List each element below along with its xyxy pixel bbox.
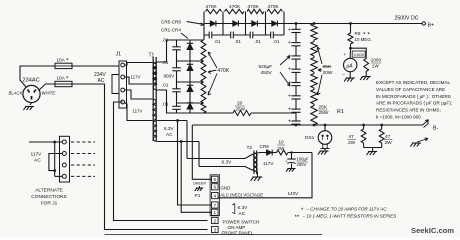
svg-text:GREEN: GREEN xyxy=(193,182,206,186)
resistor 10/2W xyxy=(272,152,276,154)
ground (100uF) xyxy=(287,168,295,170)
svg-text:ARE IN PICOFARADS ( pF OR µµF): ARE IN PICOFARADS ( pF OR µµF); xyxy=(376,101,452,106)
wire T2 primary bottom xyxy=(199,167,253,171)
capacitors .01 column xyxy=(176,40,178,47)
svg-text:+: + xyxy=(288,67,291,73)
svg-text:P1: P1 xyxy=(195,193,201,199)
svg-text:FOR J1: FOR J1 xyxy=(41,201,58,207)
ground (T2) xyxy=(256,172,258,177)
svg-text:250V: 250V xyxy=(297,162,307,167)
svg-text:CR1-CR4: CR1-CR4 xyxy=(161,28,181,33)
AC plug 234AC xyxy=(23,85,40,102)
resistor chain 470K (4x) xyxy=(201,40,206,61)
wire J1 pin4 down to P1 pin2 xyxy=(114,102,208,221)
svg-text:+: + xyxy=(288,27,291,33)
svg-text:470K: 470K xyxy=(218,68,230,74)
wire to 1000 ohm xyxy=(351,48,367,58)
svg-text:.01: .01 xyxy=(162,83,169,88)
resistor 47/2W (right) xyxy=(381,125,383,129)
diodes CR1-CR4 xyxy=(189,40,191,43)
multiplier rungs xyxy=(177,39,204,41)
fuse F2 xyxy=(55,81,72,86)
resistor 20/25W xyxy=(233,110,251,115)
svg-text:µA: µA xyxy=(346,63,353,69)
ladder capacitor row .01 x4 xyxy=(204,34,284,36)
svg-text:+: + xyxy=(288,93,291,99)
svg-text:117V: 117V xyxy=(31,152,43,158)
T1 primary winding 1 (117V) xyxy=(152,63,156,85)
svg-text:7: 7 xyxy=(214,203,217,208)
ladder resistors 470K x4 (top row) xyxy=(206,9,222,13)
ladder diode row CR5-CR8 xyxy=(204,23,287,25)
resistor 1000/1W xyxy=(364,58,369,71)
svg-text:ALTERNATE: ALTERNATE xyxy=(35,188,63,194)
svg-text:J1: J1 xyxy=(116,52,122,58)
svg-text:.01: .01 xyxy=(162,102,169,107)
svg-text:117V: 117V xyxy=(133,109,143,114)
svg-text:5: 5 xyxy=(214,177,217,182)
wire F2 to power switch (P1 pin3) xyxy=(72,84,208,230)
T1 primary winding 2 (117V) xyxy=(152,99,156,121)
label 0-500 xyxy=(352,51,365,57)
svg-text:470K: 470K xyxy=(248,4,260,10)
svg-text:117V: 117V xyxy=(131,75,141,80)
dashed leads (alternate J1) xyxy=(71,141,95,143)
connector J1 xyxy=(119,61,127,108)
svg-text:.01: .01 xyxy=(162,60,169,65)
T1 6.3V winding xyxy=(153,121,157,142)
svg-text:2W: 2W xyxy=(385,140,393,146)
svg-text:6.3V: 6.3V xyxy=(222,160,233,166)
svg-text:IN MICROFARADS ( µF ) ; OTHERS: IN MICROFARADS ( µF ) ; OTHERS xyxy=(376,94,451,99)
ground with arrow (B-) xyxy=(417,138,428,142)
wire plug to fuse F1 xyxy=(20,66,55,88)
wire 6.3V bottom to P1 pin1 xyxy=(157,141,199,143)
svg-text:10A: 10A xyxy=(57,76,66,81)
svg-text:10: 10 xyxy=(279,140,285,145)
svg-text:.01: .01 xyxy=(214,39,221,44)
ground (1000 ohm) xyxy=(365,72,367,77)
connector P1 pins xyxy=(212,176,219,182)
svg-text:.01: .01 xyxy=(273,39,280,44)
svg-text:25W: 25W xyxy=(319,110,329,116)
svg-text:900V: 900V xyxy=(164,74,176,79)
svg-text:470K: 470K xyxy=(229,4,241,10)
svg-text:6.3V: 6.3V xyxy=(164,126,174,131)
svg-text:470K: 470K xyxy=(268,4,280,10)
resistor bank 25K/20W xyxy=(313,23,315,25)
wire stack bottom xyxy=(167,112,234,114)
svg-text:ON AMP: ON AMP xyxy=(228,225,246,230)
svg-text:WHITE: WHITE xyxy=(42,91,56,96)
svg-text:470K: 470K xyxy=(206,4,218,10)
svg-text:T2: T2 xyxy=(247,145,253,151)
resistor 47/2W (left) xyxy=(363,125,365,129)
svg-text:20W: 20W xyxy=(323,70,333,76)
P1 outline xyxy=(210,175,219,216)
wire plug to fuse F2 xyxy=(39,84,56,91)
ladder cap risers xyxy=(203,24,205,41)
wire 47 ohm bottoms xyxy=(364,147,382,149)
svg-text:AC: AC xyxy=(98,78,105,84)
connector (alternate J1) xyxy=(60,136,70,182)
svg-text:25W: 25W xyxy=(236,107,246,112)
wire B- bus to P1 pin5 xyxy=(192,125,211,179)
svg-text:k =1000, M=1000 000: k =1000, M=1000 000 xyxy=(376,115,421,120)
svg-text:1W: 1W xyxy=(372,63,380,68)
svg-text:SeekIC.com: SeekIC.com xyxy=(411,226,454,235)
wire F1 to J1 pin1 xyxy=(72,65,119,67)
svg-text:R1: R1 xyxy=(337,109,344,115)
wire (bottom frame) xyxy=(105,234,323,236)
ground (plug) xyxy=(30,103,32,105)
svg-text:AC: AC xyxy=(34,158,41,164)
T1 secondary 900V winding xyxy=(153,62,157,90)
svg-text:+: + xyxy=(288,119,291,125)
wire B+ 2500V line xyxy=(287,23,423,25)
svg-text:POWER SWITCH: POWER SWITCH xyxy=(223,220,260,225)
label 6.3V AC (P1) xyxy=(232,204,235,214)
svg-text:4: 4 xyxy=(214,194,217,199)
svg-text:+: + xyxy=(288,40,291,46)
svg-text:.01: .01 xyxy=(235,39,242,44)
ground (DS1) xyxy=(324,149,326,151)
svg-text:.01: .01 xyxy=(255,39,262,44)
svg-text:234AC: 234AC xyxy=(23,78,40,84)
svg-text:AC: AC xyxy=(239,211,246,217)
svg-text:R9: R9 xyxy=(355,31,361,36)
svg-text:1000: 1000 xyxy=(371,58,382,63)
svg-text:−: − xyxy=(342,73,345,78)
svg-text:3: 3 xyxy=(214,227,217,232)
svg-text:0-500: 0-500 xyxy=(354,52,365,57)
terminal B- break xyxy=(423,120,429,125)
wire T2 secondary to CR9 xyxy=(257,152,266,155)
jumper wire pins 1-4 (alternate) xyxy=(54,142,56,176)
svg-text:47: 47 xyxy=(349,134,355,140)
svg-text:+: + xyxy=(288,107,291,113)
svg-text:B+: B+ xyxy=(428,23,435,29)
wire ALC from P1 pin4 xyxy=(218,153,312,198)
svg-text:10A: 10A xyxy=(57,58,66,63)
svg-text:25K: 25K xyxy=(319,105,328,111)
wire alternate pin1 xyxy=(29,141,62,143)
wire 900V top to rectifier xyxy=(157,40,176,62)
wire 6.3V bottom branch to T2 xyxy=(198,142,200,167)
svg-text:CR9: CR9 xyxy=(260,144,270,149)
ground (meter) xyxy=(349,72,351,78)
svg-text:DS1: DS1 xyxy=(305,135,315,141)
wire 6.3V top to P1 pin7 xyxy=(157,120,187,122)
svg-text:**: ** xyxy=(295,215,300,221)
resistor R9 10MEG xyxy=(350,24,352,34)
svg-text:1: 1 xyxy=(214,210,217,215)
svg-text:10 MEG.: 10 MEG. xyxy=(355,37,372,42)
svg-text:CONNECTIONS: CONNECTIONS xyxy=(31,194,66,200)
svg-text:2500V DC: 2500V DC xyxy=(395,16,419,22)
svg-text:EXCEPT AS INDICATED, DECIMAL: EXCEPT AS INDICATED, DECIMAL xyxy=(376,80,451,85)
svg-text:25K: 25K xyxy=(323,64,332,70)
svg-text:140V: 140V xyxy=(288,191,300,196)
capacitor 100uF/250V xyxy=(290,151,292,153)
svg-text:AC: AC xyxy=(166,132,173,137)
svg-text:CR5-CR8: CR5-CR8 xyxy=(161,20,181,25)
wire B- bus xyxy=(192,124,422,126)
svg-text:450V: 450V xyxy=(261,70,273,76)
svg-text:– 10 1-MEG. 1-WATT RESISTORS: – 10 1-MEG. 1-WATT RESISTORS IN SERIES xyxy=(302,214,397,219)
fuse F1 xyxy=(55,63,72,68)
capacitor bank 525uF/450V (8x) xyxy=(295,24,297,30)
svg-text:+: + xyxy=(343,53,346,58)
svg-text:VALUES OF CAPACITANCE ARE: VALUES OF CAPACITANCE ARE xyxy=(376,87,445,92)
svg-text:6: 6 xyxy=(214,185,217,190)
svg-text:B-: B- xyxy=(433,126,438,132)
svg-text:BLACK: BLACK xyxy=(9,91,23,96)
svg-text:ALC (NEG) VOLTAGE: ALC (NEG) VOLTAGE xyxy=(221,192,264,197)
svg-text:RESISTANCES ARE IN OHMS;: RESISTANCES ARE IN OHMS; xyxy=(376,108,441,113)
svg-text:47: 47 xyxy=(385,134,391,140)
jumper bracket J1 pins 2-3 xyxy=(112,75,119,94)
svg-text:2: 2 xyxy=(214,218,217,223)
terminal B+ xyxy=(422,22,425,25)
meter M1 uA xyxy=(349,47,352,50)
svg-text:– CHANGE TO 20 AMPS FOR 117V A: – CHANGE TO 20 AMPS FOR 117V AC xyxy=(306,207,388,212)
svg-text:GND: GND xyxy=(221,186,231,191)
wire 900V bottom to rectifier xyxy=(157,90,176,113)
ground (47 ohm) xyxy=(372,148,374,152)
svg-text:6.3V: 6.3V xyxy=(238,205,249,211)
svg-text:.01: .01 xyxy=(162,38,169,43)
wire alternate pin2 xyxy=(49,154,62,171)
svg-text:2W: 2W xyxy=(278,146,286,151)
svg-text:525µF: 525µF xyxy=(259,64,273,70)
svg-text:117V: 117V xyxy=(263,161,274,166)
svg-text:+: + xyxy=(285,159,288,164)
svg-text:2W: 2W xyxy=(348,140,356,146)
wire T2 primary top xyxy=(187,154,253,159)
svg-text:100µF: 100µF xyxy=(297,157,309,162)
wire 6.3V top branch to T2 xyxy=(186,121,188,159)
